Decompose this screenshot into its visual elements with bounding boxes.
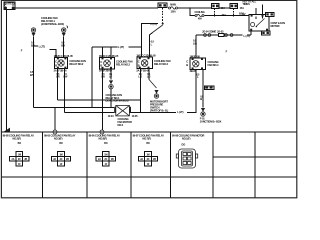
connector arrow A5: [201, 108, 205, 116]
svg-text:2A: 2A: [140, 158, 143, 161]
K4 right output: [202, 69, 204, 107]
svg-text:NO.3(F): NO.3(F): [54, 136, 63, 140]
grid circle C2 on separator: [100, 130, 104, 134]
relay K3 COOLING FAN RELAY NO.3: [136, 54, 156, 73]
wire: battery bus horizontal y8: [15, 7, 158, 9]
box A on bus: [212, 4, 220, 9]
svg-text:RELAY NO.3: RELAY NO.3: [154, 62, 168, 66]
svg-text:RELAY NO.2: RELAY NO.2: [69, 62, 83, 66]
bus y35 with connectors: [196, 34, 251, 36]
wire from junction to relay K3 left pin: [141, 24, 158, 58]
wire junction down: [153, 25, 163, 33]
wire from G2 down to relay K1: [63, 37, 65, 58]
wire label 0.5 B (G2): [61, 41, 65, 48]
svg-text:10-05: 10-05: [132, 114, 139, 118]
svg-text:NO.7(F): NO.7(F): [143, 136, 152, 140]
in-line connector arrow A3 on x111: [109, 80, 113, 88]
svg-text:BO: BO: [59, 142, 63, 145]
svg-text:L/B: L/B: [101, 76, 105, 79]
dark ref box below K5: [262, 31, 271, 35]
svg-text:15A: 15A: [240, 6, 245, 10]
wire label 0.5 B lower on x33.5: [30, 70, 34, 77]
svg-text:NO.8(F): NO.8(F): [99, 136, 108, 140]
svg-text:B/Y: B/Y: [61, 43, 65, 47]
svg-text:2C: 2C: [147, 158, 150, 161]
svg-text:L (JT): L (JT): [244, 34, 250, 38]
border frame: [1, 0, 296, 197]
relay K2 side label: [116, 59, 133, 66]
relay K3 right output diagonal to arrow A4: [141, 69, 150, 113]
svg-text:1M: 1M: [18, 154, 21, 157]
wire labels under K4: [196, 73, 200, 79]
svg-text:2B: 2B: [24, 158, 27, 161]
svg-text:DO: DO: [182, 142, 186, 146]
svg-text:1M 2C C 2D-08 -05: 1M 2C C 2D-08 -05: [54, 54, 74, 58]
svg-text:MOTOR: MOTOR: [271, 24, 280, 28]
svg-text:L (JT): L (JT): [118, 45, 124, 49]
junction node L (JT) top: [151, 22, 164, 26]
separator line y132: [1, 131, 296, 133]
svg-text:40A: 40A: [198, 18, 202, 21]
wire K5 bottom to bus y35: [250, 31, 252, 35]
svg-text:C: C: [138, 60, 140, 64]
label text COOLING FAN RELAY NO.1 (top-left): [41, 16, 68, 28]
grid circle C1 on separator: [53, 130, 57, 134]
wire drop x92 from bus y47: [91, 47, 93, 108]
connector arrow A4: [154, 90, 158, 98]
svg-text:B: B: [200, 97, 202, 101]
connector arrow G2: [62, 28, 66, 37]
wire net relay K1 left output, line y100: [58, 99, 141, 101]
bottom section dividers: [43, 132, 256, 197]
dashed drop from C-box: [162, 8, 164, 23]
current-flow arrow at bottom of battery drop: [3, 128, 10, 132]
connector arrow G1 (from relay box): [31, 28, 35, 37]
connector labels above bus y35: [202, 29, 224, 33]
cell 5 connector drawing: [176, 142, 197, 168]
wire continue x111: [110, 89, 112, 108]
svg-text:TIMES: TIMES: [243, 2, 251, 6]
svg-text:(PART OF B+ B.): (PART OF B+ B.): [150, 108, 168, 112]
label COOLING FAN MOTOR NO.2 under connector: [118, 117, 132, 127]
svg-text:1M 2D-08: 1M 2D-08: [190, 54, 201, 58]
top right vertical to text: [262, 5, 264, 15]
relay K5 A/C RELAY: [249, 15, 269, 32]
wire from G1 down: [33, 37, 35, 108]
svg-text:2B: 2B: [66, 158, 69, 161]
svg-text:B: B: [100, 64, 102, 68]
svg-text:RELAY NO.2: RELAY NO.2: [116, 62, 130, 66]
svg-text:NO.1(F): NO.1(F): [182, 136, 191, 140]
svg-text:1M 2C C 2D-08 -05: 1M 2C C 2D-08 -05: [136, 54, 156, 58]
wire labels under K2: [101, 73, 112, 79]
svg-text:BO: BO: [104, 142, 108, 145]
relay K2 outputs: [110, 69, 112, 80]
svg-text:40A: 40A: [222, 13, 227, 17]
cell 5 header: [172, 134, 205, 141]
relay K4 side label: [208, 60, 219, 67]
svg-text:BO: BO: [18, 142, 22, 145]
svg-text:1M 2C C 2D-08 -05: 1M 2C C 2D-08 -05: [99, 54, 119, 58]
cell 4 relay pinout cross: [138, 142, 157, 166]
wire: bus corner down into relay5 top: [255, 8, 257, 15]
relay K3 side label: [154, 59, 171, 66]
svg-text:2B: 2B: [111, 158, 114, 161]
svg-text:120A: 120A: [170, 10, 176, 13]
branch y15.5: [190, 8, 195, 16]
fuse F2 on branch: [194, 11, 204, 21]
battery B+ junction box: [4, 2, 16, 10]
svg-text:MAIN: MAIN: [170, 3, 176, 6]
svg-text:B: B: [55, 63, 57, 67]
svg-text:2B: 2B: [153, 158, 156, 161]
svg-text:A/C: A/C: [242, 12, 246, 16]
wire: battery left drop x6.7: [6, 10, 8, 131]
svg-text:10-04: 10-04: [108, 114, 115, 118]
svg-text:2A: 2A: [98, 158, 101, 161]
wire label 0.5 L (K3 right input): [151, 40, 155, 47]
relay K4 left pin letters: [186, 60, 188, 67]
cell 2 relay pinout cross: [51, 142, 70, 166]
svg-text:2C: 2C: [18, 158, 21, 161]
in-line connector circles: [204, 33, 233, 36]
bottom full row line: [1, 176, 296, 178]
svg-text:C: C: [5, 4, 7, 8]
svg-text:L (JT): L (JT): [177, 110, 183, 114]
svg-text:B: B: [138, 63, 140, 67]
relay K1 side label: [69, 59, 86, 66]
svg-text:L/R: L/R: [56, 76, 60, 79]
svg-text:L/B: L/B: [193, 41, 197, 45]
wire label 0.5 L/B: [193, 39, 197, 46]
svg-text:2C: 2C: [104, 158, 107, 161]
relay K2 COOLING FAN RELAY NO.2: [99, 54, 119, 73]
wire net line y112.5 (K1 right output to fan connector and relay K4): [65, 69, 197, 112]
svg-text:2A: 2A: [12, 158, 15, 161]
svg-text:L (JT): L (JT): [39, 45, 45, 49]
cell 3 relay pinout cross: [96, 142, 115, 166]
svg-text:D: D: [12, 4, 14, 8]
svg-text:C: C: [55, 60, 57, 64]
wire drop bus to relay K2 left pin: [103, 47, 112, 58]
wire drops x55.2 and x102.5 to grid circles: [55, 69, 102, 130]
C-box on battery bus: [158, 3, 167, 7]
cell 4 header: [133, 134, 165, 141]
cell 1 header: [3, 134, 35, 141]
dark ref box top-right of K5: [266, 13, 275, 17]
text HOT label top right: [242, 0, 257, 16]
branch y15.5 continue to relay K5: [204, 15, 249, 17]
bus y8 continue: [178, 7, 212, 9]
svg-text:C: C: [186, 60, 188, 64]
svg-text:B: B: [186, 63, 188, 67]
wire label 0.5 B (left): [31, 41, 35, 48]
wire labels under K1: [56, 73, 68, 79]
svg-text:1M: 1M: [59, 154, 62, 157]
wire drop x196 to relay K4: [195, 35, 197, 58]
label COOLING FAN RELAY NO.1 (mid): [106, 93, 129, 103]
svg-text:NO.2: NO.2: [118, 123, 124, 127]
wire label on x203: [200, 94, 204, 101]
svg-text:2A: 2A: [53, 158, 56, 161]
svg-text:C: C: [100, 60, 102, 64]
cell 2 header: [44, 134, 76, 141]
wire labels under K3: [138, 73, 150, 79]
junction dot x190: [189, 7, 191, 9]
svg-text:B/Y: B/Y: [31, 43, 35, 47]
bottom row line right only: [213, 156, 297, 158]
svg-text:(JUNCTION B+ BOX): (JUNCTION B+ BOX): [106, 99, 129, 103]
connector fan motor icon: [108, 105, 139, 118]
relay K5 side label: [271, 21, 286, 28]
junction bus y47: [92, 46, 141, 48]
svg-text:JUNCTION B+ BOX: JUNCTION B+ BOX: [200, 119, 222, 123]
label under arrow A5: [200, 116, 222, 123]
svg-text:COOLING: COOLING: [194, 11, 204, 14]
fuse F1 MAIN on bus: [169, 3, 178, 13]
svg-text:2C: 2C: [60, 158, 63, 161]
svg-text:1M: 1M: [146, 154, 149, 157]
svg-text:1M: 1M: [104, 154, 107, 157]
cell 3 header: [89, 134, 121, 141]
svg-text:BO: BO: [146, 142, 150, 145]
svg-text:NO.2(F): NO.2(F): [13, 136, 22, 140]
dark ref box right of x203 wire: [204, 86, 214, 90]
svg-text:2A 1F 2B-06: 2A 1F 2B-06: [54, 68, 68, 72]
relay K1 outputs: [58, 69, 65, 113]
svg-text:FAN NO.4: FAN NO.4: [208, 63, 219, 67]
node L (JT) left with tick: [34, 45, 57, 58]
svg-text:JO-04 SDME JO-03: JO-04 SDME JO-03: [202, 29, 224, 33]
svg-text:2A 1F 2B-06: 2A 1F 2B-06: [136, 68, 150, 72]
box B on bus: [230, 4, 238, 9]
cell 1 relay pinout cross: [10, 142, 29, 166]
relay K1 COOLING FAN RELAY NO.1: [54, 54, 74, 73]
label COOLING FAN MOTOR NO.1 (right of arrow): [150, 100, 168, 113]
svg-text:B/Y: B/Y: [30, 73, 34, 77]
svg-text:(JUNCTION B+ BOX): (JUNCTION B+ BOX): [41, 22, 64, 26]
dashed drops from boxes: [214, 8, 216, 16]
relay K4 COOLING FAN RELAY NO.4: [190, 54, 206, 73]
wire net from G1 wire, line y107.5 to fan connector: [34, 107, 115, 109]
